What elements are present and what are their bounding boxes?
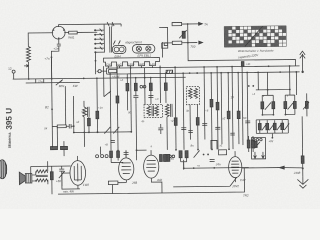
resistor R30 [163, 154, 166, 161]
trimmer arrow A5 [104, 127, 110, 134]
switch table grid [224, 26, 286, 53]
capacitor C5 [181, 128, 186, 130]
terminal stub [13, 73, 15, 79]
pickup branch lower resistor R3 [172, 41, 182, 44]
wire top of V1 to transformer [59, 24, 122, 27]
bus C left main [13, 77, 186, 79]
wire vertical x217 [216, 67, 219, 149]
core L2 [88, 107, 90, 117]
resistor R33 [252, 140, 255, 148]
bottom bus [58, 168, 245, 194]
output transformer T2 [36, 170, 48, 182]
wire R1 [64, 31, 97, 33]
switch stack drop [94, 52, 96, 74]
wire vertical x232 [231, 67, 234, 149]
capacitor C3 [133, 90, 138, 103]
switch box outline [251, 138, 265, 159]
misc labels pass [44, 76, 290, 169]
wire vertical x190 [189, 105, 191, 140]
wire x296 [295, 72, 297, 95]
wire R2 arrow [182, 23, 202, 25]
junction dots pickup [187, 23, 189, 44]
wire mid bottom [184, 159, 249, 168]
dot switch drop [95, 60, 97, 62]
labels under comb [106, 62, 155, 67]
wires V3 [125, 150, 127, 182]
comb stubs [109, 66, 153, 68]
row2 resistor a [258, 123, 261, 129]
row2 trimmer arrows [262, 124, 290, 131]
resistor R23 under V3 [108, 181, 118, 185]
trimmer in switch box [254, 142, 260, 149]
component at x166 [164, 43, 167, 46]
wire vertical x57 down [56, 126, 58, 147]
tube V5 rectifier [229, 157, 242, 178]
resistor R9 vertical [149, 83, 152, 91]
wire y150 links [100, 146, 146, 155]
trimmer arrow A6 [113, 127, 119, 134]
resistor in switch box [254, 141, 257, 147]
resistor R8 vertical [134, 83, 137, 91]
wire R4 [52, 125, 69, 127]
junction dots heater [261, 89, 291, 139]
capacitor C12 [124, 150, 129, 157]
wire x167 down [166, 117, 168, 150]
heater group 1 resistor b [272, 102, 275, 109]
arrows above socket [113, 40, 120, 44]
speaker LS [19, 172, 32, 185]
wire left of V1 [28, 33, 53, 47]
dark cells of table [224, 26, 286, 47]
tube V2 output [70, 161, 86, 186]
wire vertical x228 [227, 73, 230, 149]
wire R24 R25 [181, 158, 187, 170]
wires R32 R33 [249, 136, 254, 152]
wires heater group 1 [262, 90, 273, 115]
IF transformer IFT3 [186, 87, 199, 105]
heater group 2 resistor b [293, 101, 296, 108]
trimmer arrow A2b [303, 102, 309, 109]
resistor R14 vertical [216, 102, 219, 110]
antenna coil L1 [26, 46, 30, 62]
chassis comb bracket [103, 58, 159, 67]
capacitor C1 under V1 [51, 39, 61, 79]
wire R27 [111, 157, 123, 162]
wire vertical x221 [220, 73, 223, 144]
mains plug chevrons [297, 176, 308, 188]
row2 resistor d [281, 123, 284, 129]
wire L1 to bus [28, 62, 30, 79]
trimmer arrow A3 [59, 171, 65, 178]
resistor R4 horizontal [57, 125, 66, 128]
wire R3 arrow [162, 42, 198, 44]
wire netztrafo feed [188, 41, 296, 67]
wire RB1 RB2 [52, 141, 64, 156]
dot riser [301, 71, 303, 73]
wires speaker to T2 [32, 166, 48, 184]
junction dot x52 [51, 56, 53, 110]
wire R7 [126, 74, 128, 110]
bus D short [26, 81, 80, 84]
resistor R10 vertical [164, 83, 167, 91]
wire vertical x238 [237, 73, 240, 144]
capacitor C15 [230, 133, 235, 135]
resistor R13 vertical [210, 99, 213, 107]
fuse box F1 on bus [166, 70, 173, 73]
coil core T1 [110, 27, 112, 53]
capacitor C4 [148, 96, 153, 98]
resistor pair R25 [185, 151, 188, 158]
small circles row left [96, 155, 109, 158]
pickup branch upper resistor R2 [172, 22, 182, 25]
wires heater verticals up [256, 66, 290, 90]
electrolytic C10 [59, 166, 64, 178]
junction dots y131 [88, 131, 98, 133]
label Minerva 395 U [5, 108, 14, 148]
resistor pair R24 [179, 151, 182, 158]
capacitor C13 [158, 124, 163, 134]
capacitor C16 [110, 141, 115, 143]
resistor R27 [110, 151, 113, 158]
lamp circle [98, 70, 101, 73]
wire L2 [83, 101, 86, 147]
wire vertical x73 [72, 96, 74, 132]
wire x302 upper [301, 116, 303, 148]
row2 resistor c [273, 123, 276, 129]
circles row on switch box [253, 138, 262, 141]
wire vertical x247 [246, 73, 249, 145]
junction dot mains [302, 167, 304, 169]
wires V4 [151, 150, 162, 193]
resistor R32 [247, 140, 250, 148]
wire x166 [165, 73, 167, 102]
heater group 1 resistor [261, 102, 264, 109]
socket X2 [132, 44, 155, 53]
dots mid row [203, 154, 209, 156]
wire vertical x104 [103, 66, 105, 96]
resistor R6 vertical [96, 111, 99, 119]
dark resistor RB2 [60, 146, 67, 149]
resistor R12 vertical [196, 118, 199, 126]
capacitor C11 [210, 159, 215, 161]
resistor R16 vertical [237, 111, 240, 119]
antenna riser [301, 54, 303, 72]
wire vertical x197 [197, 105, 200, 150]
wire R28 [117, 157, 119, 160]
dial rail top [107, 66, 300, 68]
wire R23 [112, 183, 126, 194]
resistor R15 vertical [227, 111, 230, 119]
wire connectors bus C to D [36, 79, 44, 83]
tube V3 [119, 158, 134, 180]
resistor R34 [241, 62, 244, 67]
dial lamp box [109, 69, 117, 72]
junction dot mid bottom [183, 167, 215, 169]
wire vertical x131 [130, 68, 133, 132]
tube V1 magic eye [52, 26, 65, 39]
U-link connector [211, 140, 217, 149]
wire vertical x183 [182, 73, 185, 149]
coil arrow tick [24, 64, 28, 67]
junction dots bus [126, 77, 145, 79]
trimmer arrow A4 [194, 151, 200, 158]
wire x136 [135, 78, 138, 160]
band switch arrow S2 [104, 91, 111, 97]
wire x61 down [61, 178, 63, 186]
resistor R29 [159, 154, 162, 161]
terminal circle [12, 70, 15, 73]
edge component (frame aerial) [0, 160, 7, 179]
wire vertical x110 [109, 74, 112, 150]
capacitor C8 [245, 121, 250, 123]
arrowhead R3 [199, 41, 203, 44]
arrowhead R2 [199, 22, 203, 25]
wire mains vertical [302, 148, 304, 176]
IF transformer IFT1 [144, 104, 163, 117]
dial rail bottom [107, 66, 300, 74]
diagonal of table [245, 26, 263, 46]
capacitor C6 [202, 123, 207, 125]
wire horizontal y131 [74, 131, 131, 134]
wire to mains [242, 167, 303, 168]
band switch arrow S1 [56, 80, 63, 86]
junction dot right rail [289, 65, 298, 73]
down arrows in switch box [254, 152, 265, 158]
arrow ticks on grid wire [107, 22, 114, 26]
wire vertical x52 [51, 57, 52, 147]
small circles pair [140, 85, 146, 88]
dot x131 [130, 131, 132, 133]
wire vertical x160 [159, 65, 161, 102]
wire x163 [161, 42, 163, 57]
switch stack T1 [103, 25, 105, 53]
resistor R28 [117, 151, 120, 158]
capacitor C14 [188, 131, 193, 133]
resistor R1 [69, 31, 78, 34]
wire R22 [51, 166, 53, 194]
wire vertical x145 [144, 68, 146, 104]
wire x151 [150, 78, 152, 104]
box component mid [219, 150, 227, 155]
small circles row mid [169, 155, 175, 158]
tube V4 [143, 155, 158, 178]
junction dots y85 [241, 66, 254, 87]
potentiometer P1 [182, 31, 185, 38]
resistor R35 [116, 96, 119, 103]
wire lower link [173, 177, 237, 187]
resistor R26 mains [301, 156, 304, 164]
pin dots V1 [53, 29, 65, 39]
taps of T1 [94, 29, 104, 54]
switch contact arrow S3 [279, 166, 284, 169]
wire vertical x117 [116, 66, 119, 150]
wire vertical x65 [64, 86, 66, 125]
arrow up mains [300, 51, 305, 58]
oscillator coil L2 [83, 107, 87, 117]
heater group 3 resistor [305, 101, 308, 108]
IF transformer IFT2 [165, 104, 172, 117]
wires heater group 3 [306, 93, 308, 116]
wires V2 [62, 156, 80, 189]
trimmer arrow A2 [287, 102, 293, 109]
resistor R5 vertical [87, 118, 90, 126]
resistor R31 [167, 154, 170, 161]
wire R5 [88, 117, 90, 132]
arrow P1 [179, 30, 187, 38]
row2 resistor b [266, 123, 269, 129]
wire vertical x242 [241, 67, 244, 145]
resistor R11 vertical [174, 118, 177, 126]
extra junction dots pass2 [83, 65, 271, 151]
resistor R22 vertical [50, 172, 53, 180]
wire rail x258 [257, 72, 259, 89]
wire junction vertical pickup [187, 24, 189, 43]
wires heater group 2 [285, 89, 295, 114]
wires row2 [256, 120, 288, 138]
resistor R7 vertical [126, 83, 129, 91]
junction dots bus C [28, 65, 281, 80]
junction dot x73 [73, 125, 75, 133]
capacitor C2 [69, 124, 74, 129]
trimmer arrow A1 [265, 103, 271, 110]
wire x97 [96, 78, 99, 132]
wire left leg pickup [159, 27, 168, 48]
wire T1 top [104, 24, 121, 27]
wire vertical x175 [174, 67, 177, 149]
junction dot x211 [203, 66, 212, 74]
heater group 2 resistor [284, 102, 287, 109]
wire vertical x211 [210, 73, 213, 149]
dark resistor RB1 [50, 146, 57, 149]
wire top speaker loop [31, 161, 71, 173]
capacitor C7 [215, 127, 220, 129]
wires V5 [234, 151, 236, 182]
socket X1 [112, 45, 126, 53]
fuse hatch [167, 70, 173, 73]
wire vertical x204 [203, 67, 206, 139]
wire lamp [97, 70, 107, 72]
